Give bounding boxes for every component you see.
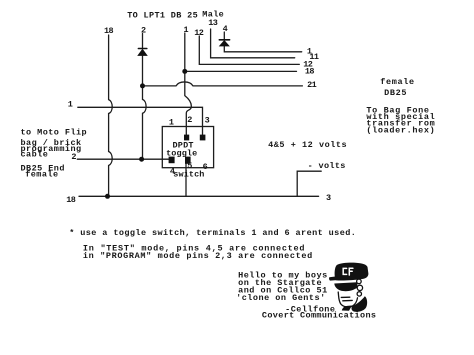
svg-text:- volts: - volts (308, 161, 346, 171)
svg-text:TO LPT1 DB 25: TO LPT1 DB 25 (127, 10, 198, 20)
svg-text:18: 18 (104, 26, 114, 36)
svg-text:* use a toggle switch, termina: * use a toggle switch, terminals 1 and 6… (69, 228, 356, 238)
svg-text:1: 1 (68, 99, 73, 109)
svg-text:2: 2 (71, 152, 76, 162)
svg-text:3: 3 (326, 193, 331, 203)
wire: LPT pin 18 vertical (109, 35, 113, 196)
logo: Cellfone mascot (329, 263, 368, 312)
svg-text:toggle: toggle (166, 148, 197, 158)
svg-text:female: female (25, 170, 58, 180)
svg-text:18: 18 (66, 195, 76, 205)
wire: LPT pin 1 vertical (185, 33, 192, 135)
svg-text:13: 13 (208, 18, 218, 28)
logo collar right (351, 296, 367, 312)
svg-text:switch: switch (173, 170, 204, 180)
DPDT terminal square pin 3 (200, 135, 206, 141)
svg-text:female: female (380, 77, 415, 87)
logo cap CF letter C (343, 268, 346, 274)
wire: diode2 junction to DB25 pin 21 (hops over pin1 wire) (143, 82, 303, 86)
diode D2 on LPT pin 4 (219, 40, 229, 46)
logo sunglasses (334, 282, 357, 291)
logo cap brim (329, 276, 343, 281)
wire: LPT pin 13 to DB25 pin 11 (211, 29, 295, 58)
logo collar left (342, 306, 352, 311)
wire: LPT pin 12 to DB25 pin 12 (199, 36, 299, 64)
svg-text:DB25: DB25 (384, 88, 407, 98)
wire: LPT pin 2 vertical (below diode) (143, 56, 147, 160)
wire: Moto pin 2 row to DPDT pin 4 (77, 158, 168, 160)
logo mouth (343, 299, 352, 301)
svg-text:to Moto Flip: to Moto Flip (21, 128, 88, 138)
DPDT terminal square pin 5 (185, 157, 191, 164)
junction node: Moto2 row / pin2 wire (139, 157, 144, 162)
diode D1 on LPT pin 2 (138, 49, 147, 56)
DPDT switch box U1 (162, 127, 213, 168)
wire: LPT pin 2 vertical (above diode) (142, 34, 144, 49)
wire: Moto pin 18 row to DB25 pin 3 (79, 195, 319, 197)
svg-text:Covert Communications: Covert Communications (262, 311, 376, 321)
junction node: pin2 diode/DB25-21 (140, 83, 145, 88)
svg-text:4&5 + 12 volts: 4&5 + 12 volts (268, 140, 347, 150)
wire: minus volts riser (297, 171, 321, 196)
junction node: Moto18 row / pin18 wire (105, 194, 110, 199)
logo ear curl 2 (357, 285, 362, 290)
wire: LPT pin 4 diode to DB25 pin 1 (224, 46, 301, 52)
svg-text:12: 12 (194, 28, 204, 38)
DPDT terminal square pin 4 (169, 157, 175, 164)
svg-text:3: 3 (205, 116, 210, 126)
logo ear curl 1 (357, 279, 362, 284)
logo nose (341, 296, 350, 298)
logo ear curl 3 (357, 292, 361, 296)
wire: node on pin1 to DB25 pin 18 (185, 70, 297, 72)
svg-text:1: 1 (184, 25, 189, 35)
junction node: pin1/DB25-18 (182, 69, 187, 74)
svg-text:18: 18 (305, 67, 315, 77)
svg-text:'clone on Gents': 'clone on Gents' (236, 293, 326, 303)
DPDT terminal square pin 2 (184, 135, 189, 141)
svg-text:in "PROGRAM" mode pins 2,3 are: in "PROGRAM" mode pins 2,3 are connected (83, 251, 313, 261)
logo face outline (338, 292, 357, 307)
svg-text:1: 1 (169, 118, 174, 128)
svg-text:21: 21 (307, 80, 317, 90)
svg-text:4: 4 (223, 24, 228, 34)
svg-text:cable: cable (21, 150, 49, 160)
logo cap crown (335, 263, 369, 281)
wire: LPT pin 4 vertical (above diode) (223, 32, 225, 39)
svg-text:(loader.hex): (loader.hex) (366, 126, 435, 136)
logo cap CF letter F (349, 268, 353, 275)
wire: DPDT pin 5 down to ground row (185, 164, 187, 197)
svg-text:2: 2 (141, 25, 146, 35)
wire: Moto pin 1 row to DPDT pin 3 (78, 107, 203, 135)
svg-text:2: 2 (187, 115, 192, 125)
